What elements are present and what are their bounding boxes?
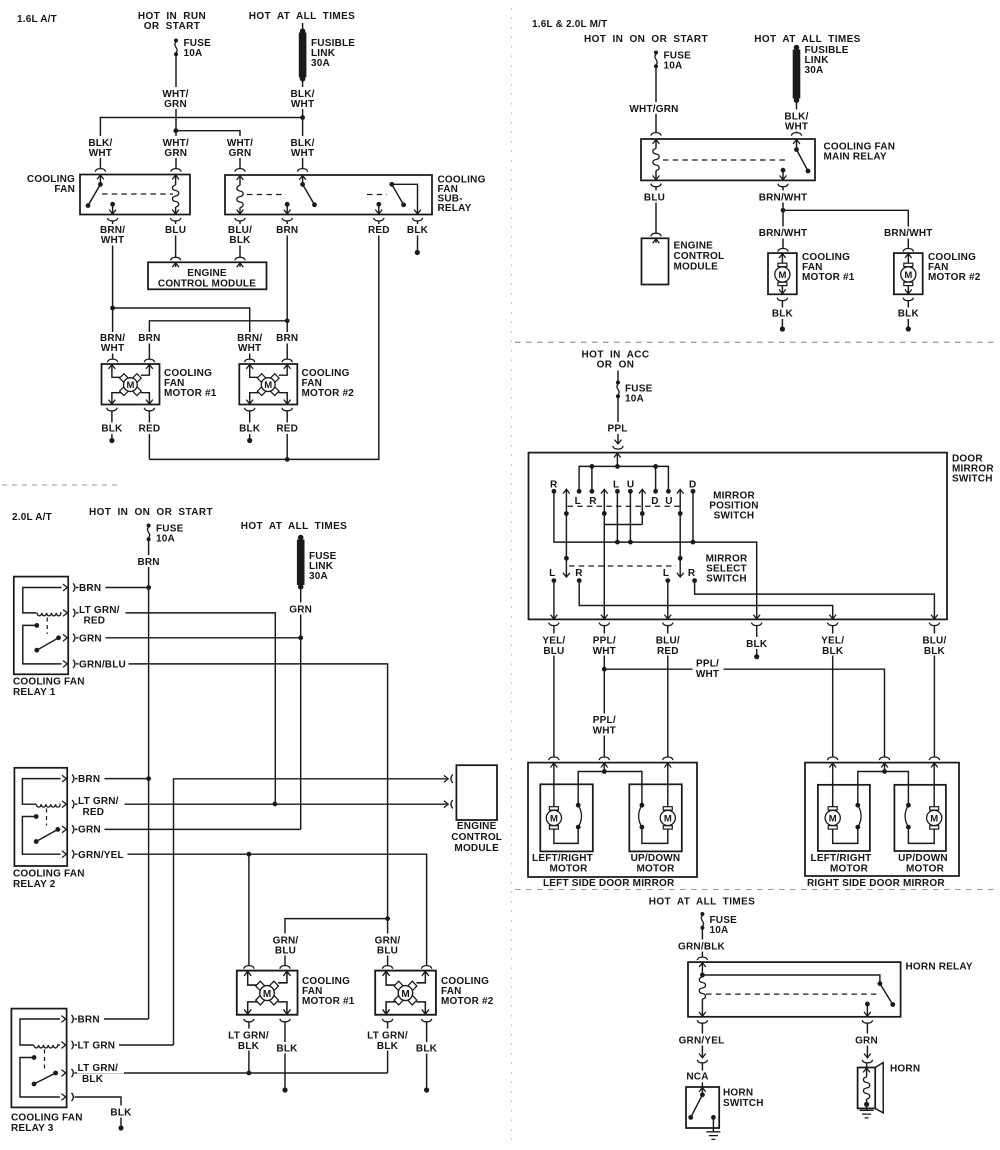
relay K7 HORN RELAY box bbox=[688, 962, 901, 1017]
svg-text:YEL/: YEL/ bbox=[821, 636, 844, 647]
svg-text:LT GRN: LT GRN bbox=[78, 1041, 116, 1052]
svg-text:WHT: WHT bbox=[89, 148, 112, 159]
position switch contacts row bbox=[552, 489, 557, 494]
svg-text:YEL/: YEL/ bbox=[542, 636, 565, 647]
svg-text:HORN RELAY: HORN RELAY bbox=[906, 962, 973, 973]
svg-text:GRN: GRN bbox=[289, 605, 312, 616]
wire YEL/BLU output bbox=[553, 583, 555, 619]
svg-text:BRN: BRN bbox=[78, 1015, 100, 1026]
svg-text:MOTOR: MOTOR bbox=[549, 863, 588, 874]
wire K6 LT GRN/BLK pin bbox=[75, 1072, 388, 1074]
svg-text:GRN: GRN bbox=[79, 633, 102, 644]
svg-text:PPL: PPL bbox=[607, 424, 627, 435]
svg-text:BLK: BLK bbox=[746, 639, 768, 650]
relay K3 switch bbox=[793, 140, 800, 144]
label BLK/WHT (sub-relay switch) bbox=[288, 136, 317, 158]
svg-text:GRN/YEL: GRN/YEL bbox=[78, 850, 124, 861]
wire BLK/WHT bbox=[796, 102, 798, 133]
relay K3 mech link bbox=[663, 159, 787, 161]
svg-text:RED: RED bbox=[84, 616, 106, 627]
svg-text:MOTOR #1: MOTOR #1 bbox=[802, 272, 855, 283]
svg-text:BLK: BLK bbox=[238, 1041, 260, 1052]
svg-text:MOTOR: MOTOR bbox=[636, 863, 675, 874]
svg-text:U: U bbox=[627, 480, 634, 491]
ECM U3 box bbox=[456, 765, 497, 820]
svg-text:BLK: BLK bbox=[276, 1044, 298, 1055]
svg-text:HOT AT ALL TIMES: HOT AT ALL TIMES bbox=[249, 11, 356, 22]
label BRN/WHT bbox=[97, 224, 128, 246]
wire K5 GRN pin bbox=[75, 828, 301, 830]
switch S1 DOOR MIRROR SWITCH box bbox=[529, 453, 948, 620]
svg-text:GRN/BLK: GRN/BLK bbox=[678, 942, 726, 953]
svg-text:HOT IN ON OR START: HOT IN ON OR START bbox=[584, 34, 708, 45]
svg-text:BLK: BLK bbox=[377, 1041, 399, 1052]
label PPL/WHT bbox=[590, 634, 620, 656]
label NCA bbox=[685, 1071, 711, 1083]
label WHT/GRN bbox=[161, 87, 190, 109]
svg-text:L: L bbox=[613, 480, 619, 491]
motor M9 LEFT/RIGHT MOTOR (right mirror) bbox=[818, 785, 870, 851]
svg-text:HOT AT ALL TIMES: HOT AT ALL TIMES bbox=[754, 34, 861, 45]
wire BLU/BLK from K2 coil to ECM bbox=[235, 218, 245, 221]
svg-text:BLK: BLK bbox=[101, 424, 123, 435]
wire K6 LT GRN pin bbox=[75, 1044, 174, 1046]
svg-text:BLK: BLK bbox=[110, 1108, 132, 1119]
wire BLK motor1 to ground dot bbox=[107, 408, 117, 411]
relay K6 internals bbox=[20, 1019, 60, 1045]
relay K2 switch 1 bbox=[299, 176, 306, 180]
label BRN/WHT (motor2) bbox=[234, 332, 265, 354]
motor M8 UP/DOWN MOTOR (left mirror) bbox=[629, 784, 682, 851]
svg-text:U: U bbox=[665, 496, 672, 507]
ECM U2 box bbox=[642, 238, 669, 284]
relay K4 pin arcs bbox=[73, 583, 75, 591]
output cups below box bbox=[549, 623, 559, 626]
label WHT/GRN (sub-relay coil) bbox=[226, 136, 255, 158]
svg-text:BLK: BLK bbox=[822, 646, 844, 657]
svg-text:GRN: GRN bbox=[855, 1036, 878, 1047]
wire BLK stub to dot bbox=[756, 626, 758, 655]
label YEL/BLK bbox=[818, 634, 848, 656]
svg-text:RED: RED bbox=[657, 646, 679, 657]
wire K6 BRN pin bbox=[75, 1018, 149, 1020]
svg-text:WHT: WHT bbox=[238, 343, 261, 354]
RIGHT SIDE DOOR MIRROR box bbox=[805, 763, 959, 876]
wire BLK motor2 to ground dot bbox=[245, 408, 255, 411]
label LT GRN/BLK (motor1) bbox=[225, 1029, 273, 1051]
svg-text:OR ON: OR ON bbox=[597, 360, 635, 371]
wire BRN/WHT from relay to motors bbox=[778, 184, 788, 187]
label BLU/BLK bbox=[920, 634, 950, 656]
svg-text:PPL/: PPL/ bbox=[593, 715, 616, 726]
motor M10 UP/DOWN MOTOR (right mirror) bbox=[894, 785, 946, 851]
svg-text:D: D bbox=[651, 496, 658, 507]
svg-text:30A: 30A bbox=[311, 58, 330, 69]
wire WHT/GRN from fuse bbox=[175, 55, 177, 170]
wire K5 GRN/YEL pin bbox=[75, 854, 427, 966]
label YEL/BLU bbox=[539, 634, 569, 656]
motor M5 COOLING FAN MOTOR #1 bbox=[237, 971, 298, 1015]
svg-text:COOLING FAN: COOLING FAN bbox=[13, 869, 85, 880]
svg-text:RED: RED bbox=[276, 424, 298, 435]
fusible link 30A bbox=[302, 23, 304, 32]
wire K5 BRN pin bbox=[75, 778, 147, 780]
svg-text:RELAY 2: RELAY 2 bbox=[13, 879, 56, 890]
svg-text:BRN: BRN bbox=[78, 774, 100, 785]
wire BLK motor1 to ground dot bbox=[777, 298, 787, 301]
svg-text:HOT AT ALL TIMES: HOT AT ALL TIMES bbox=[241, 521, 348, 532]
select switch contacts bbox=[552, 578, 557, 583]
svg-text:10A: 10A bbox=[664, 61, 683, 72]
relay K1 switch bbox=[97, 175, 104, 179]
svg-text:BRN: BRN bbox=[276, 333, 298, 344]
wire net ECM-pin1 to relay3 LT GRN bbox=[174, 779, 447, 1045]
wire BRN from K2 to motors bbox=[282, 218, 292, 221]
wire RED motor2 bbox=[282, 408, 292, 411]
svg-text:GRN/BLU: GRN/BLU bbox=[79, 659, 126, 670]
relay K2 mech link 1 bbox=[247, 194, 286, 196]
label BRN/WHT (motor1) bbox=[97, 332, 128, 354]
svg-text:BRN: BRN bbox=[79, 583, 101, 594]
label BRN (motor2) bbox=[273, 332, 301, 344]
wire RED motor1 bbox=[144, 408, 154, 411]
svg-text:MOTOR #2: MOTOR #2 bbox=[928, 272, 981, 283]
svg-text:10A: 10A bbox=[710, 925, 729, 936]
svg-text:SWITCH: SWITCH bbox=[714, 511, 755, 522]
svg-text:GRN: GRN bbox=[78, 825, 101, 836]
wire GRN/BLK bbox=[701, 928, 703, 957]
fusible link 30A bbox=[793, 50, 801, 99]
motor M2 COOLING FAN MOTOR #2 bbox=[239, 364, 297, 405]
svg-text:WHT/GRN: WHT/GRN bbox=[629, 104, 678, 115]
relay K1 COOLING FAN box bbox=[80, 175, 190, 215]
svg-text:RED: RED bbox=[83, 807, 105, 818]
svg-text:BLK: BLK bbox=[924, 646, 946, 657]
svg-text:L: L bbox=[663, 568, 669, 579]
wire PPL/WHT down with bus to right mirror bbox=[604, 626, 884, 758]
divider horizontal left bbox=[2, 484, 120, 486]
svg-text:WHT: WHT bbox=[593, 726, 616, 737]
wire BLU/BLK down to right mirror bbox=[933, 626, 935, 758]
fuse link 30A bbox=[297, 540, 305, 586]
wire BLK/WHT from fusible link bbox=[302, 81, 304, 169]
wire BLU/BLK output bbox=[695, 583, 935, 619]
relay K6 COOLING FAN RELAY 3 box bbox=[11, 1009, 66, 1108]
wire YEL/BLK output bbox=[579, 583, 833, 619]
svg-text:BRN: BRN bbox=[276, 225, 298, 236]
relay K1 mech link bbox=[102, 193, 173, 195]
svg-text:MOTOR: MOTOR bbox=[830, 863, 869, 874]
svg-text:OR START: OR START bbox=[144, 21, 201, 32]
svg-text:CONTROL: CONTROL bbox=[451, 832, 502, 843]
fuse 10A bbox=[617, 371, 619, 382]
wire BRN/WHT from K1 to motors bbox=[107, 218, 117, 221]
svg-text:LT GRN/: LT GRN/ bbox=[367, 1031, 408, 1042]
svg-text:ENGINE: ENGINE bbox=[457, 821, 497, 832]
svg-text:BRN: BRN bbox=[138, 333, 160, 344]
label GRN/BLU (motor1) bbox=[270, 934, 301, 956]
label BLK bbox=[743, 637, 770, 649]
svg-text:GRN: GRN bbox=[164, 148, 187, 159]
LEFT SIDE DOOR MIRROR box bbox=[528, 763, 697, 877]
wire K4 GRN pin bbox=[76, 637, 299, 639]
wire BLU coil to ECM bbox=[651, 184, 661, 187]
svg-text:LEFT SIDE DOOR MIRROR: LEFT SIDE DOOR MIRROR bbox=[543, 878, 675, 889]
svg-text:CONTROL: CONTROL bbox=[674, 251, 725, 262]
svg-text:ENGINE: ENGINE bbox=[187, 268, 227, 279]
svg-text:WHT: WHT bbox=[101, 343, 124, 354]
svg-text:BLU: BLU bbox=[377, 946, 398, 957]
svg-text:MOTOR #1: MOTOR #1 bbox=[302, 996, 355, 1007]
svg-text:SWITCH: SWITCH bbox=[706, 574, 747, 585]
ECM U1 ENGINE CONTROL MODULE box bbox=[148, 262, 267, 289]
svg-text:BLU: BLU bbox=[644, 193, 665, 204]
wire RED from K2 to motor bus bbox=[374, 218, 384, 221]
svg-text:WHT: WHT bbox=[593, 646, 616, 657]
svg-text:MOTOR #2: MOTOR #2 bbox=[302, 388, 355, 399]
label WHT/GRN (coil) bbox=[161, 136, 190, 158]
fuse 10A bbox=[700, 912, 704, 930]
svg-text:MODULE: MODULE bbox=[674, 262, 719, 273]
label BRN (motor1) bbox=[135, 332, 163, 344]
label BLK bbox=[404, 224, 430, 236]
svg-text:HOT IN ON OR START: HOT IN ON OR START bbox=[89, 507, 213, 518]
label BLU/BLK bbox=[226, 224, 255, 246]
wire K4 BRN pin bbox=[76, 587, 147, 589]
wire PPL entry to bus bbox=[614, 453, 621, 457]
svg-text:WHT: WHT bbox=[291, 99, 314, 110]
svg-text:WHT: WHT bbox=[101, 235, 124, 246]
svg-text:MOTOR #1: MOTOR #1 bbox=[164, 388, 217, 399]
wire K4 GRN/BLU pin bbox=[76, 664, 388, 919]
svg-text:L: L bbox=[575, 496, 581, 507]
fuse 10A bbox=[174, 39, 178, 57]
wire bus2 WHT/GRN bbox=[176, 131, 240, 169]
svg-text:SWITCH: SWITCH bbox=[723, 1098, 764, 1109]
label BLK/WHT (fusible link) bbox=[288, 87, 317, 109]
mirror position switch poles bbox=[563, 489, 570, 493]
horn LS1 HORN bbox=[858, 1068, 876, 1109]
svg-text:1.6L & 2.0L M/T: 1.6L & 2.0L M/T bbox=[532, 19, 607, 30]
wire PPL/WHT branch inside left mirror bbox=[578, 763, 642, 803]
relay K1 coil bbox=[172, 175, 179, 179]
svg-text:RED: RED bbox=[139, 424, 161, 435]
divider vertical dotted bbox=[511, 8, 513, 1145]
relay K5 COOLING FAN RELAY 2 box bbox=[14, 768, 67, 866]
relay K6 pin arcs bbox=[72, 1015, 74, 1023]
position switch mech link bbox=[568, 505, 681, 507]
svg-text:COOLING FAN: COOLING FAN bbox=[11, 1113, 83, 1124]
motor M1 COOLING FAN MOTOR #1 bbox=[102, 364, 160, 405]
svg-text:WHT: WHT bbox=[291, 148, 314, 159]
relay K5 internals bbox=[22, 779, 60, 805]
wire BLK motor2 to ground dot bbox=[903, 298, 913, 301]
svg-text:GRN: GRN bbox=[229, 148, 252, 159]
relay K3 COOLING FAN MAIN RELAY box bbox=[641, 139, 815, 180]
svg-text:D: D bbox=[689, 480, 696, 491]
divider horizontal top-right bbox=[515, 341, 998, 343]
svg-text:R: R bbox=[575, 568, 583, 579]
label BLU bbox=[164, 224, 188, 236]
wire LT GRN/BLK motor1 down bbox=[244, 1019, 254, 1022]
svg-text:RELAY: RELAY bbox=[438, 203, 472, 214]
wire GRN/YEL to horn switch bbox=[697, 1020, 707, 1023]
svg-text:MOTOR: MOTOR bbox=[906, 863, 945, 874]
relay K4 internals bbox=[23, 588, 62, 613]
svg-text:LT GRN/: LT GRN/ bbox=[79, 605, 120, 616]
svg-text:R: R bbox=[550, 480, 558, 491]
svg-text:BLU/: BLU/ bbox=[922, 636, 946, 647]
svg-text:HOT AT ALL TIMES: HOT AT ALL TIMES bbox=[649, 897, 756, 908]
svg-text:BLK: BLK bbox=[416, 1044, 438, 1055]
label PPL/WHT on bus bbox=[693, 658, 724, 679]
relay K2 mech link 2 bbox=[367, 194, 387, 196]
svg-text:HORN: HORN bbox=[890, 1064, 920, 1075]
wire PPL feed bus bbox=[579, 466, 668, 490]
divider horizontal mid-right bbox=[515, 889, 998, 891]
wire K5 LT GRN/RED pin to ECM pin2 bbox=[75, 803, 447, 805]
motor M6 COOLING FAN MOTOR #2 bbox=[375, 971, 436, 1015]
relay K4 COOLING FAN RELAY 1 box bbox=[14, 577, 68, 675]
label PPL/WHT on drop bbox=[590, 714, 620, 736]
svg-text:BRN/WHT: BRN/WHT bbox=[884, 228, 933, 239]
svg-text:ENGINE: ENGINE bbox=[674, 241, 714, 252]
svg-text:1.6L A/T: 1.6L A/T bbox=[17, 14, 57, 25]
svg-text:MOTOR #2: MOTOR #2 bbox=[441, 996, 494, 1007]
relay K3 coil bbox=[653, 140, 660, 144]
motor M4 COOLING FAN MOTOR #2 box bbox=[894, 253, 923, 294]
wire BLK motor2 to ground dot bbox=[421, 1019, 431, 1022]
svg-text:BRN/WHT: BRN/WHT bbox=[759, 228, 808, 239]
relay K5 pin arcs bbox=[72, 774, 74, 782]
wire BLU from K1 coil to ECM bbox=[170, 218, 180, 221]
label BLU/RED bbox=[653, 634, 683, 656]
svg-text:L: L bbox=[549, 568, 555, 579]
svg-text:FAN: FAN bbox=[54, 184, 75, 195]
switch S2 HORN SWITCH box bbox=[686, 1087, 719, 1128]
wire PPL bbox=[617, 397, 619, 445]
svg-text:PPL/: PPL/ bbox=[593, 636, 616, 647]
svg-text:BLU: BLU bbox=[275, 946, 296, 957]
fuse 10A bbox=[147, 524, 151, 542]
svg-text:LT GRN/: LT GRN/ bbox=[78, 796, 119, 807]
svg-text:RELAY 1: RELAY 1 bbox=[13, 687, 56, 698]
svg-text:RELAY 3: RELAY 3 bbox=[11, 1123, 54, 1134]
wire K6 pin4 to BLK ground dot bbox=[75, 1097, 122, 1126]
relay K2 COOLING FAN SUB-RELAY box bbox=[225, 175, 432, 215]
label BLK (motor2) bbox=[236, 423, 263, 435]
svg-text:BLK: BLK bbox=[229, 235, 251, 246]
motor M3 COOLING FAN MOTOR #1 box bbox=[768, 253, 797, 294]
wire return line to BLK output bbox=[554, 493, 757, 619]
svg-text:BLK: BLK bbox=[239, 424, 261, 435]
svg-text:LT GRN/: LT GRN/ bbox=[78, 1063, 119, 1074]
svg-text:BLK: BLK bbox=[772, 309, 794, 320]
label BLK/WHT (relay pin) bbox=[86, 136, 115, 158]
fuse 10A bbox=[654, 51, 658, 69]
motor M7 LEFT/RIGHT MOTOR (left mirror) bbox=[540, 784, 593, 851]
wire K4 LT GRN/RED pin bbox=[76, 613, 275, 804]
wire U-link poles 2-3 and PPL/WHT output bbox=[604, 525, 642, 620]
svg-text:BLK: BLK bbox=[82, 1074, 104, 1085]
svg-text:BLU: BLU bbox=[543, 646, 564, 657]
wire GRN/YEL drop to motor1 bbox=[248, 854, 250, 966]
svg-text:SWITCH: SWITCH bbox=[952, 474, 993, 485]
svg-text:10A: 10A bbox=[625, 394, 644, 405]
svg-text:PPL/: PPL/ bbox=[696, 659, 719, 670]
wire BLK stub from K2 bbox=[412, 218, 422, 221]
label BRN bbox=[273, 224, 301, 236]
svg-text:10A: 10A bbox=[156, 534, 175, 545]
wire BRN vertical bbox=[148, 540, 150, 1020]
svg-text:BLU/: BLU/ bbox=[656, 636, 680, 647]
svg-text:30A: 30A bbox=[805, 65, 824, 76]
wire LT GRN/BLK motor2 down bbox=[382, 1019, 392, 1022]
relay K2 switch 2 bbox=[389, 182, 394, 187]
wire BLU/RED down to mirror bbox=[667, 626, 669, 758]
wire GRN to horn bbox=[862, 1020, 872, 1023]
wire WHT/GRN bbox=[655, 67, 657, 134]
label BLK (motor2) bbox=[413, 1042, 440, 1054]
svg-text:HORN: HORN bbox=[723, 1088, 753, 1099]
relay K7 link bar and switch bbox=[702, 975, 880, 984]
wire GRN vertical bbox=[300, 588, 302, 829]
wire YEL/BLU down to mirror bbox=[553, 626, 555, 758]
svg-text:MAIN RELAY: MAIN RELAY bbox=[824, 152, 887, 163]
label RED (motor2) bbox=[274, 423, 301, 435]
svg-text:BRN: BRN bbox=[137, 557, 159, 568]
svg-text:30A: 30A bbox=[309, 571, 328, 582]
wire PPL/WHT branch inside right mirror bbox=[858, 763, 909, 803]
svg-text:BRN/WHT: BRN/WHT bbox=[759, 193, 808, 204]
svg-text:GRN/YEL: GRN/YEL bbox=[679, 1036, 725, 1047]
relay K7 coil bbox=[699, 963, 706, 967]
svg-text:R: R bbox=[688, 568, 696, 579]
label BLK (motor1) bbox=[274, 1042, 301, 1054]
svg-text:BLK: BLK bbox=[898, 309, 920, 320]
wire YEL/BLK down to right mirror bbox=[832, 626, 834, 758]
svg-text:WHT: WHT bbox=[785, 122, 808, 133]
svg-text:GRN: GRN bbox=[164, 99, 187, 110]
label RED bbox=[365, 224, 392, 236]
label BLK (motor1) bbox=[98, 423, 125, 435]
wire GRN/BLU to motors bbox=[285, 919, 388, 966]
svg-text:CONTROL MODULE: CONTROL MODULE bbox=[158, 279, 256, 290]
label BRN/WHT (motor2) bbox=[884, 227, 933, 239]
ground at horn switch bbox=[712, 1117, 714, 1131]
svg-text:R: R bbox=[589, 496, 597, 507]
wire BLU/RED output bbox=[667, 583, 669, 619]
relay K2 coil bbox=[237, 176, 244, 180]
label LT GRN/BLK (motor2) bbox=[364, 1029, 412, 1051]
svg-text:RIGHT SIDE DOOR MIRROR: RIGHT SIDE DOOR MIRROR bbox=[807, 878, 945, 889]
wire bus1 BLK/WHT bbox=[100, 118, 302, 170]
svg-text:NCA: NCA bbox=[686, 1072, 708, 1083]
wire BLK motor1 to ground dot bbox=[280, 1019, 290, 1022]
svg-text:WHT: WHT bbox=[696, 669, 719, 680]
label BRN/WHT (motor1) bbox=[759, 227, 808, 239]
svg-text:LT GRN/: LT GRN/ bbox=[228, 1031, 269, 1042]
svg-text:COOLING FAN: COOLING FAN bbox=[13, 677, 85, 688]
mirror select switch mech link bbox=[569, 565, 676, 567]
svg-text:MODULE: MODULE bbox=[454, 843, 499, 854]
label RED (motor1) bbox=[136, 423, 163, 435]
svg-text:2.0L A/T: 2.0L A/T bbox=[12, 512, 52, 523]
svg-text:10A: 10A bbox=[184, 48, 203, 59]
svg-text:BLU: BLU bbox=[165, 225, 186, 236]
svg-text:BLK: BLK bbox=[407, 225, 429, 236]
svg-text:RED: RED bbox=[368, 225, 390, 236]
